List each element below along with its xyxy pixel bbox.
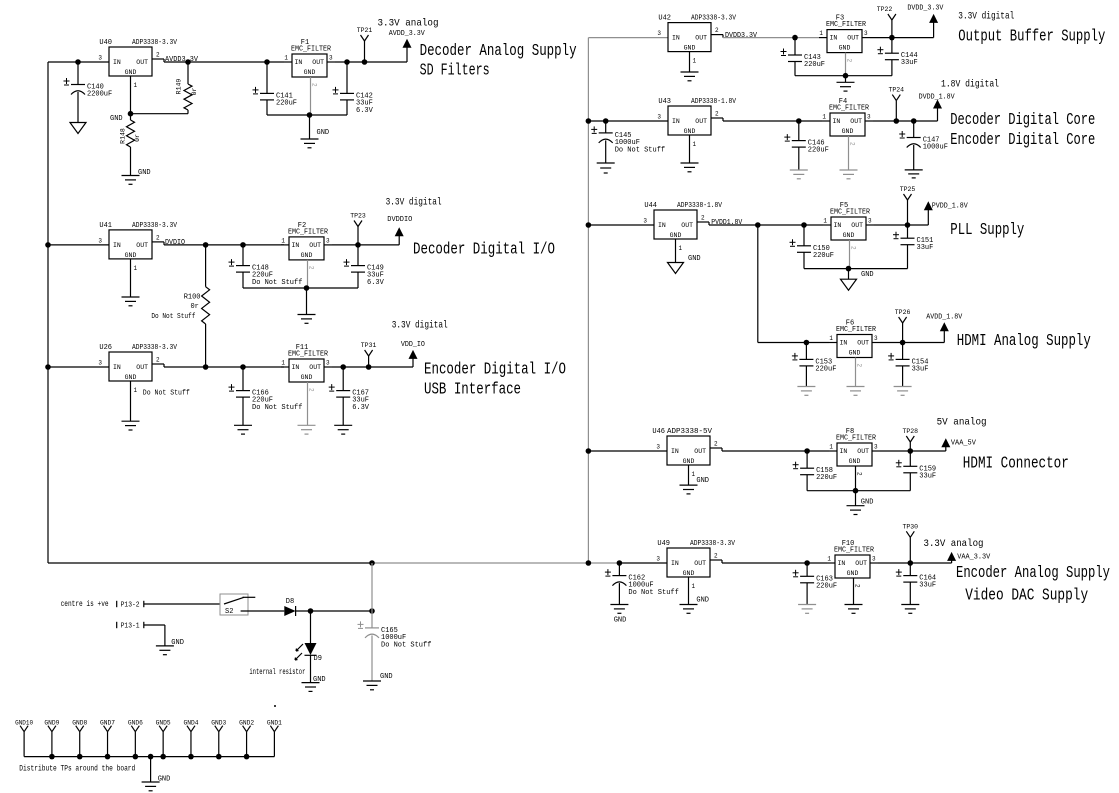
svg-text:1: 1 [693,141,697,148]
node junction bus row R2 [586,118,592,124]
svg-text:0r: 0r [191,88,198,96]
svg-text:IN: IN [672,118,680,125]
svg-text:220uF: 220uF [813,252,834,260]
svg-text:OUT: OUT [136,242,148,249]
capacitor C154 33uF [902,343,904,360]
capacitor C147 1000uF [913,121,915,138]
svg-text:PVDD_1.8V: PVDD_1.8V [932,203,969,211]
wire F1 ground rail [267,114,347,116]
ground below U26 [122,420,140,422]
wire P13-2 to S2 [144,603,220,605]
ground below U49 [680,604,698,606]
svg-text:2: 2 [156,52,160,59]
stray dot [274,705,276,707]
svg-text:IN: IN [113,242,121,249]
wire U41 gnd stub [130,259,132,297]
capacitor C150 220uF [803,225,805,246]
svg-text:TP31: TP31 [361,342,377,349]
node junction R100 bottom [203,364,209,370]
svg-text:IN: IN [295,59,303,66]
node junction F3 gnd [843,73,849,79]
svg-text:OUT: OUT [857,448,869,455]
ground below testpoint rail [142,781,160,783]
node junction C140 [75,59,81,65]
svg-text:EMC_FILTER: EMC_FILTER [826,21,867,29]
svg-text:2: 2 [701,215,705,222]
svg-text:Decoder Digital I/O: Decoder Digital I/O [413,241,555,260]
ground below F3 [845,76,847,83]
svg-text:GND7: GND7 [100,720,115,727]
svg-text:1: 1 [134,82,138,89]
svg-text:3.3V analog: 3.3V analog [378,18,439,30]
svg-text:Do Not Stuff: Do Not Stuff [615,146,665,154]
ground below U41 [122,296,140,298]
node junction TP24 [894,118,900,124]
svg-text:IN: IN [113,364,121,371]
svg-text:GND: GND [110,115,123,123]
capacitor C146 220uF [798,121,800,141]
ground below C164 [901,604,919,606]
wire row R4 to F6 [758,342,829,344]
node junction C153 [804,340,810,346]
svg-text:U41: U41 [99,222,112,230]
svg-text:Distribute TPs around the boar: Distribute TPs around the board [19,765,135,774]
svg-text:GND: GND [847,570,859,577]
svg-text:DVDD_3.3V: DVDD_3.3V [907,5,944,13]
svg-text:OUT: OUT [847,35,859,42]
ground below C163 [798,604,816,606]
wire F1 out to arrow [335,61,407,63]
svg-text:P13-1: P13-1 [121,623,140,631]
svg-text:U44: U44 [644,202,657,210]
svg-text:220uF: 220uF [804,61,825,69]
svg-text:OUT: OUT [855,560,867,567]
svg-text:R100: R100 [184,294,201,302]
svg-text:33uF: 33uF [919,582,936,590]
svg-text:IN: IN [830,35,838,42]
svg-text:3: 3 [643,218,647,225]
wire row1 input [48,61,109,63]
node junction gnd rail [49,754,55,760]
wire row R2 input [588,120,668,122]
svg-text:IN: IN [833,118,841,125]
led D9 internal resistor [310,611,312,643]
wire F10 out [878,562,952,564]
wire F8 out [880,450,946,452]
ground (triangle) below C140 [70,123,86,134]
node junction F2 gnd [304,285,310,291]
svg-text:IN: IN [834,222,842,229]
op-amp U49 regulator ADP3338-3.3V [667,548,710,577]
ground below F2 [306,288,308,315]
ground below U42 [681,71,699,73]
svg-text:GND: GND [171,639,184,647]
svg-text:GND: GND [125,374,137,381]
wire U42 gnd stub [689,52,691,72]
svg-text:1: 1 [679,245,683,252]
wire F6 out [880,342,944,344]
capacitor C166 220uF Do Not Stuff [242,367,244,391]
svg-text:SD Filters: SD Filters [420,62,490,81]
svg-text:220uF: 220uF [816,582,837,590]
node junction C144 [889,35,895,41]
power arrow AVDD_3.3V [406,47,408,62]
svg-text:R148: R148 [120,128,127,144]
node junction TP30 [908,560,914,566]
svg-text:GND: GND [158,776,171,784]
capacitor C142 33uF [346,62,348,93]
svg-text:2: 2 [850,246,857,250]
node junction gnd rail [160,754,166,760]
svg-text:6.3V: 6.3V [356,107,374,115]
svg-text:PVDD1.8V: PVDD1.8V [711,219,743,227]
svg-text:3: 3 [874,444,878,451]
svg-text:Encoder Digital I/O: Encoder Digital I/O [424,361,566,380]
wire F8 ground rail [807,490,910,492]
svg-text:EMC_FILTER: EMC_FILTER [834,547,875,555]
switch S2 [220,594,248,615]
node junction F5 gnd [846,266,852,272]
svg-text:EMC_FILTER: EMC_FILTER [836,326,877,334]
wire row2 input [48,244,109,246]
power arrow DVDD_3.3V [933,22,935,38]
node junction R100 top [203,242,209,248]
svg-text:1: 1 [281,237,285,244]
svg-text:IN: IN [672,35,680,42]
svg-text:220uF: 220uF [815,365,836,373]
capacitor C153 220uF [805,343,807,360]
capacitor C164 33uF [909,563,911,576]
ground triangle below F5 [848,269,850,280]
wire U49 gnd stub [688,577,690,605]
wire row R5 input [588,450,667,452]
svg-text:AVDD_1.8V: AVDD_1.8V [926,314,963,322]
wire row3 input [48,366,109,368]
power arrow AVDD_1.8V [943,330,945,342]
svg-text:ADP3338-3.3V: ADP3338-3.3V [691,15,737,23]
svg-text:GND: GND [380,673,393,681]
svg-text:1: 1 [692,583,696,590]
svg-text:3: 3 [656,444,660,451]
node junction gnd rail [105,754,111,760]
svg-text:ADP3338-3.3V: ADP3338-3.3V [132,344,178,352]
svg-text:TP30: TP30 [902,523,918,530]
wire U26 gnd stub [130,381,132,421]
node junction C142 top [344,59,350,65]
svg-text:EMC_FILTER: EMC_FILTER [836,435,877,443]
filter F8 EMC_FILTER [837,443,872,466]
svg-text:2: 2 [715,27,719,34]
svg-text:VAA_5V: VAA_5V [951,440,977,448]
svg-text:2: 2 [714,441,718,448]
capacitor C151 33uF [907,225,909,238]
node junction D9 branch [308,608,314,614]
filter F1 EMC_FILTER [292,54,327,77]
ground below C167 [334,424,352,426]
wire row1 output to F1 [164,61,284,63]
node junction C165 [369,608,375,614]
node junction C141 [264,59,270,65]
node junction F1 gnd [307,112,313,118]
op-amp U44 regulator ADP3338-1.8V [654,210,697,239]
svg-text:ADP3338-5V: ADP3338-5V [667,428,713,436]
svg-text:2: 2 [311,83,318,87]
node junction C150 [801,222,807,228]
wire row3 to F11 [164,366,284,368]
wire branch down to F6 [757,225,759,343]
node junction bus row R3 [586,222,592,228]
svg-text:GND: GND [301,374,313,381]
svg-text:DVDD3.3V: DVDD3.3V [725,32,758,40]
svg-text:220uF: 220uF [808,147,829,155]
svg-text:VAA_3.3V: VAA_3.3V [957,554,991,562]
node junction TP25 [905,222,911,228]
svg-text:IN: IN [292,242,300,249]
diode D8 [284,606,295,616]
svg-text:GND: GND [696,477,709,485]
svg-text:EMC_FILTER: EMC_FILTER [288,228,329,236]
resistor R100 0r Do Not Stuff [205,245,207,287]
svg-text:GND: GND [614,617,627,625]
connector pin P13-1 [116,622,118,628]
svg-text:2: 2 [156,357,160,364]
svg-text:3.3V digital: 3.3V digital [958,11,1014,23]
svg-text:GND: GND [317,129,330,137]
svg-text:3: 3 [874,335,878,342]
svg-text:3: 3 [326,360,330,367]
svg-text:ADP3338-1.8V: ADP3338-1.8V [677,202,723,210]
svg-text:IN: IN [840,448,848,455]
svg-text:6.3V: 6.3V [352,404,370,412]
node junction F8 gnd [853,488,859,494]
svg-text:Do Not Stuff: Do Not Stuff [252,404,302,412]
ground below F1 [309,115,311,139]
svg-text:3: 3 [867,114,871,121]
svg-text:GND: GND [683,570,695,577]
svg-text:GND: GND [125,69,137,76]
svg-text:2: 2 [856,364,863,368]
svg-text:220uF: 220uF [816,474,837,482]
wire F3 out [870,37,934,39]
svg-text:S2: S2 [225,608,233,616]
svg-text:3: 3 [98,360,102,367]
svg-text:IN: IN [671,560,679,567]
svg-text:TP23: TP23 [350,213,366,220]
power arrow PVDD_1.8V [927,209,929,225]
svg-text:AVDD3.3V: AVDD3.3V [165,56,199,64]
svg-text:GND: GND [670,232,682,239]
svg-text:GND: GND [138,169,151,177]
wire gnd testpoint rail [24,756,274,758]
svg-text:1.8V digital: 1.8V digital [941,79,999,91]
svg-text:2: 2 [156,234,160,241]
svg-text:GND2: GND2 [239,720,254,727]
svg-text:OUT: OUT [312,59,324,66]
svg-text:ADP3338-3.3V: ADP3338-3.3V [132,222,178,230]
svg-text:2: 2 [308,388,315,392]
ground below C162 [610,604,628,606]
wire F2 ground rail [243,287,358,289]
wire row R1 to F3 grey [723,37,819,39]
power arrow DVDDIO [398,235,400,245]
filter F2 EMC_FILTER [289,237,324,260]
filter F3 EMC_FILTER [827,30,862,53]
svg-text:1000uF: 1000uF [923,144,948,152]
svg-text:OUT: OUT [695,118,707,125]
wire F11 out to arrow [332,366,413,368]
op-amp U41 regulator ADP3338-3.3V [109,230,152,259]
node junction gnd rail [188,754,194,760]
wire bottom rail middle grey [372,562,620,564]
svg-text:GND: GND [861,499,874,507]
capacitor C149 33uF [357,245,359,266]
capacitor C148 220uF Do Not Stuff [242,245,244,266]
svg-text:GND: GND [696,597,709,605]
node junction gnd rail [244,754,250,760]
svg-text:VDD_IO: VDD_IO [401,341,425,349]
ground below C153 [797,386,815,388]
svg-text:EMC_FILTER: EMC_FILTER [829,105,870,113]
node junction TP26 [900,340,906,346]
ground below C166 [234,424,252,426]
svg-text:GND8: GND8 [72,720,87,727]
power arrow VAA_5V [945,446,947,451]
filter F5 EMC_FILTER [831,217,866,240]
ground below U46 [680,484,698,486]
ground below F10 [845,604,863,606]
capacitor C158 220uF [806,451,808,468]
node junction R149 [185,59,191,65]
svg-text:GND: GND [839,45,851,52]
filter F10 EMC_FILTER [835,555,870,578]
svg-text:Do Not Stuff: Do Not Stuff [151,313,195,321]
filter F4 EMC_FILTER [830,113,865,136]
svg-text:1: 1 [284,55,288,62]
svg-text:Decoder Analog Supply: Decoder Analog Supply [420,42,577,61]
svg-text:2: 2 [846,59,853,63]
ground below C165 [363,680,381,682]
svg-text:Do Not Stuff: Do Not Stuff [252,279,302,287]
svg-text:U43: U43 [658,98,671,106]
svg-text:GND: GND [849,350,861,357]
capacitor C165 1000uF Do Not Stuff [371,611,373,628]
svg-text:1: 1 [819,30,823,37]
capacitor C167 33uF [342,367,344,391]
node junction bus row R5 [586,448,592,454]
svg-text:D8: D8 [286,598,294,606]
svg-text:GND: GND [683,458,695,465]
svg-text:2: 2 [714,553,718,560]
node junction C145 [603,118,609,124]
wire F5 ground rail [804,268,908,270]
node junction branch to F6 [755,222,761,228]
svg-text:3: 3 [98,55,102,62]
svg-text:GND: GND [301,252,313,259]
node junction C167 [340,364,346,370]
svg-text:33uF: 33uF [917,244,934,252]
svg-text:0r: 0r [190,303,198,311]
svg-text:OUT: OUT [851,222,863,229]
ground triangle below U44 [668,263,684,274]
node junction rail right bus [586,560,592,566]
svg-text:33uF: 33uF [919,472,936,480]
svg-text:IN: IN [838,560,846,567]
svg-text:HDMI Connector: HDMI Connector [963,455,1069,474]
node junction C162 [617,560,623,566]
test point TP23 [355,242,361,248]
node junction C163 [804,560,810,566]
svg-text:33uF: 33uF [912,365,929,373]
svg-text:1: 1 [692,471,696,478]
node junction C158 [804,448,810,454]
svg-text:3: 3 [868,218,872,225]
filter F6 EMC_FILTER [837,335,872,358]
svg-text:IN: IN [658,222,666,229]
svg-text:GND5: GND5 [156,720,171,727]
svg-text:Decoder Digital Core: Decoder Digital Core [950,111,1095,130]
svg-text:3: 3 [329,55,333,62]
svg-text:OUT: OUT [681,222,693,229]
svg-text:TP28: TP28 [902,428,918,435]
svg-text:Output Buffer Supply: Output Buffer Supply [958,28,1105,47]
ground below C147 [905,169,923,171]
svg-text:ADP3338-3.3V: ADP3338-3.3V [132,39,178,47]
svg-text:U26: U26 [99,344,112,352]
node junction C146 [796,118,802,124]
svg-text:ADP3338-1.8V: ADP3338-1.8V [691,98,737,106]
node junction bus row3 [45,364,51,370]
svg-text:GND: GND [849,458,861,465]
svg-text:DVDIO: DVDIO [165,239,185,247]
wire row R2 to F4 [723,120,822,122]
svg-text:GND6: GND6 [128,720,143,727]
svg-text:0r: 0r [134,134,141,142]
svg-text:OUT: OUT [694,560,706,567]
svg-text:USB Interface: USB Interface [424,381,521,400]
wire bottom rail right [620,562,667,564]
svg-text:2: 2 [849,142,856,146]
svg-text:IN: IN [840,340,848,347]
capacitor C141 220uF [266,62,268,93]
svg-text:1: 1 [829,444,833,451]
wire right bus vertical grey [587,38,589,563]
op-amp U40 regulator ADP3338-3.3V [109,47,152,76]
wire R149 to gnd node [131,113,189,115]
svg-text:IN: IN [292,364,300,371]
svg-text:3: 3 [657,114,661,121]
svg-text:EMC_FILTER: EMC_FILTER [830,209,871,217]
svg-text:GND4: GND4 [183,720,198,727]
ground below F8 [855,491,857,506]
svg-text:Encoder Digital Core: Encoder Digital Core [950,131,1095,150]
svg-text:3: 3 [98,237,102,244]
svg-text:TP25: TP25 [900,186,916,193]
svg-text:GND: GND [304,69,316,76]
svg-text:3.3V digital: 3.3V digital [392,320,448,332]
capacitor C163 220uF [806,563,808,576]
svg-text:GND: GND [125,252,137,259]
svg-text:ADP3338-3.3V: ADP3338-3.3V [690,540,736,548]
svg-text:OUT: OUT [309,364,321,371]
svg-text:Do Not Stuff: Do Not Stuff [143,390,190,398]
svg-text:IN: IN [671,448,679,455]
svg-text:TP22: TP22 [877,6,893,13]
power arrow VDD_IO [412,358,414,367]
wire U43 gnd stub [689,135,691,163]
svg-text:U42: U42 [658,15,671,23]
svg-text:GND: GND [684,128,696,135]
svg-text:AVDD_3.3V: AVDD_3.3V [389,30,426,38]
